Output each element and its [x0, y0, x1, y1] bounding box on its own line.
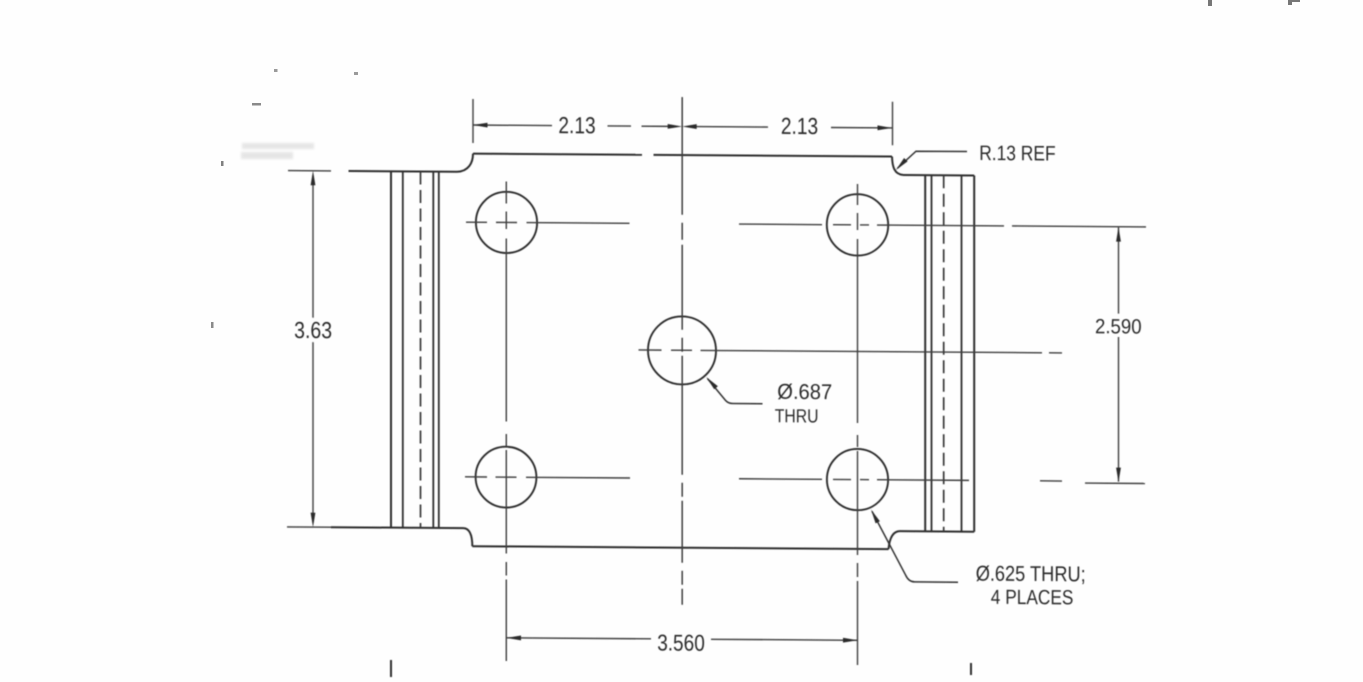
right wing bottom edge [900, 530, 975, 533]
arrow left 3.560 [507, 635, 522, 640]
speck dash [252, 103, 261, 106]
right bend line 3 [961, 175, 963, 531]
left bend line 1 [390, 171, 392, 527]
top edge mark 1 [1208, 0, 1212, 6]
svg-text:Ø.687: Ø.687 [777, 380, 832, 404]
extension line bottom [287, 526, 331, 528]
arrow left dim tip at 473 [473, 123, 488, 128]
right edge [973, 176, 975, 532]
top edge right segment [654, 155, 893, 157]
left bend centerline (dashed) [420, 172, 422, 528]
smudge band 2 [241, 152, 293, 159]
extension line right (x=892.5) [892, 102, 894, 146]
svg-text:4 PLACES: 4 PLACES [991, 586, 1074, 610]
bottom edge [472, 546, 888, 549]
leader arrow .625 [871, 509, 880, 523]
horizontal centerline bottom hole row left [465, 477, 630, 478]
hole top-left (.625) [476, 192, 537, 254]
arrow pointing left at center [682, 124, 697, 129]
stub line right (next view) [970, 663, 972, 675]
horizontal centerline bottom row dash [1040, 480, 1062, 482]
svg-text:THRU: THRU [775, 406, 819, 427]
arrow up 2.590 [1116, 227, 1121, 242]
smudge band 1 [242, 143, 314, 149]
vertical centerline right hole column [857, 184, 859, 665]
arrow pointing right at center [668, 124, 683, 129]
leader line R.13 [898, 151, 968, 169]
arrow right dim tip at 892 [878, 125, 893, 130]
svg-text:Ø.625 THRU;: Ø.625 THRU; [976, 562, 1086, 587]
dim line 2.13 right segments [697, 127, 893, 128]
extension line bottom 2.590 [1085, 482, 1145, 484]
hole bottom-left (.625) [476, 447, 537, 508]
extension line left (x=473) [472, 99, 474, 143]
arrow down 3.63 [311, 513, 316, 528]
right bend line 2 [931, 175, 933, 531]
top-left corner relief R.13 [457, 153, 473, 171]
dim line 3.560 [507, 638, 858, 640]
dim line 2.590 [1118, 227, 1120, 481]
right wing top edge [904, 174, 975, 176]
left wing bottom edge [331, 526, 464, 529]
hole top-right (.625) [827, 194, 888, 256]
left bend line 4 [438, 172, 440, 528]
svg-text:3.63: 3.63 [294, 317, 332, 343]
speck dot 3 [211, 322, 214, 328]
right bend centerline (dashed) [943, 175, 945, 531]
svg-text:2.13: 2.13 [781, 113, 818, 139]
bottom-right corner relief R.13 [889, 531, 900, 549]
arrow right 3.560 [843, 638, 858, 643]
horizontal centerline top hole row left [466, 222, 630, 223]
horizontal centerline top hole row right [739, 224, 1146, 227]
dim line 2.13 left segments [473, 125, 668, 126]
left bend line 3 [432, 172, 434, 528]
hole center (.687) [648, 316, 716, 384]
leader line .625 [872, 511, 958, 582]
right bend line 1 [924, 175, 926, 531]
hole bottom-right (.625) [827, 449, 888, 511]
dim line 3.63 [312, 176, 314, 521]
left wing top edge [349, 170, 458, 173]
arrow down 2.590 [1116, 468, 1121, 483]
vertical centerline plate center [681, 97, 683, 605]
top edge left segment [473, 154, 642, 155]
horizontal centerline bottom hole row right [739, 479, 969, 481]
arrow up 3.63 [311, 171, 316, 186]
leader arrow R.13 [896, 158, 908, 170]
bottom-left corner relief R.13 [464, 528, 473, 546]
leader line .687 [708, 379, 763, 404]
svg-text:3.560: 3.560 [657, 629, 705, 655]
top-right corner relief R.13 [892, 157, 904, 175]
svg-text:2.590: 2.590 [1095, 315, 1142, 338]
speck dot 4 [221, 161, 224, 166]
horizontal centerline middle row [639, 350, 1063, 353]
vertical centerline left hole column [505, 182, 507, 661]
leader arrow .687 [706, 377, 718, 389]
top edge mark 2 [1288, 0, 1300, 5]
stub line left (next view) [390, 660, 392, 677]
svg-text:2.13: 2.13 [558, 112, 595, 138]
extension line top [288, 170, 331, 172]
speck dot 2 [354, 72, 358, 75]
speck dot 1 [274, 69, 278, 72]
left bend line 2 [402, 171, 404, 527]
svg-text:R.13 REF: R.13 REF [979, 142, 1055, 166]
